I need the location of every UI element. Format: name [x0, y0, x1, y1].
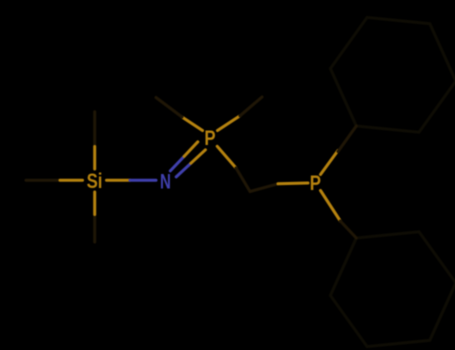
bond Si-CH3 up (dark carbon half) [93, 112, 96, 146]
bond Si-CH3 down (dark carbon half) [93, 215, 96, 243]
ring R2 (bottom-right carbocycle, very dark) [330, 232, 455, 347]
double bond N=P line 2 (gold half) [184, 142, 198, 157]
bond Si-CH3 up (gold half) [93, 147, 96, 170]
bond Si-N (blue half) [130, 179, 156, 182]
ring R1 (top-right carbocycle, very dark) [330, 17, 455, 132]
bond P2-ring2 (dark stub) [340, 221, 356, 238]
bond P1-CH3 up-left (gold half) [182, 117, 203, 131]
bond P1-CH3 up-right (gold half) [218, 116, 241, 131]
svg-text:P: P [310, 172, 321, 195]
bond P1-CH2 (dark carbon half) [236, 168, 250, 192]
bond CH2-P2 (gold half) [278, 182, 308, 186]
svg-text:Si: Si [87, 170, 103, 193]
bond CH2-P2 (dark carbon half) [250, 184, 278, 192]
bond P1-CH3 up-left (dark carbon half) [156, 98, 182, 118]
bond P1-CH2 (gold half) [217, 146, 236, 168]
bond Si-CH3 left (gold half) [60, 179, 83, 182]
double bond N=P line 1 (gold half) [191, 150, 206, 164]
svg-text:N: N [160, 169, 171, 193]
bond P2-ring1 (dark stub) [338, 126, 356, 152]
bond P2-ring1 (gold) [321, 151, 339, 175]
bond Si-CH3 left (dark carbon half) [26, 179, 60, 182]
bond P2-ring2 (gold) [321, 191, 341, 222]
double bond N=P line 1 (blue half) [176, 163, 191, 177]
bond Si-CH3 down (gold half) [93, 192, 96, 215]
double bond N=P line 2 (blue half) [170, 156, 184, 171]
bond Si-N (gold half) [107, 179, 131, 182]
svg-text:P: P [204, 128, 215, 151]
bond P1-CH3 up-right (dark carbon half) [240, 97, 262, 116]
